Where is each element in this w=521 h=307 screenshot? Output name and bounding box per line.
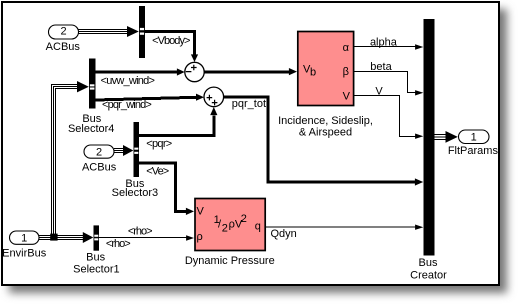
svg-text:β: β bbox=[343, 66, 349, 78]
svg-text:1: 1 bbox=[21, 232, 27, 244]
svg-text:Creator: Creator bbox=[410, 269, 447, 281]
svg-text:V: V bbox=[375, 86, 383, 98]
svg-text:V: V bbox=[197, 206, 205, 218]
svg-text:ACBus: ACBus bbox=[82, 162, 117, 174]
svg-text:ACBus: ACBus bbox=[46, 41, 81, 53]
svg-text:Bus: Bus bbox=[419, 257, 438, 269]
svg-text:<pqr_wind>: <pqr_wind> bbox=[102, 99, 151, 111]
svg-text:q: q bbox=[255, 221, 261, 233]
svg-text:2: 2 bbox=[241, 213, 247, 225]
svg-text:2: 2 bbox=[96, 146, 102, 158]
svg-text:2: 2 bbox=[60, 26, 66, 38]
svg-text:Selector4: Selector4 bbox=[68, 123, 114, 135]
svg-text:V: V bbox=[343, 91, 351, 103]
svg-text:pqr_tot: pqr_tot bbox=[232, 98, 266, 110]
svg-text:ρ: ρ bbox=[197, 231, 203, 243]
svg-text:<pqr>: <pqr> bbox=[146, 138, 172, 150]
svg-text:<Vbody>: <Vbody> bbox=[152, 35, 190, 47]
svg-text:beta: beta bbox=[370, 61, 392, 73]
svg-text:EnvirBus: EnvirBus bbox=[2, 247, 47, 259]
svg-text:alpha: alpha bbox=[370, 37, 398, 49]
svg-text:Incidence, Sideslip,: Incidence, Sideslip, bbox=[278, 115, 373, 127]
svg-text:Selector1: Selector1 bbox=[73, 264, 119, 276]
svg-text:& Airspeed: & Airspeed bbox=[299, 127, 352, 139]
svg-text:2: 2 bbox=[222, 223, 228, 235]
svg-text:Qdyn: Qdyn bbox=[271, 228, 297, 240]
svg-text:α: α bbox=[343, 42, 350, 54]
svg-text:Dynamic Pressure: Dynamic Pressure bbox=[185, 255, 275, 267]
svg-text:FltParams: FltParams bbox=[448, 145, 499, 157]
svg-text:<uvw_wind>: <uvw_wind> bbox=[101, 75, 155, 87]
svg-text:1: 1 bbox=[471, 132, 477, 144]
svg-text:<rho>: <rho> bbox=[128, 225, 152, 237]
svg-text:Bus: Bus bbox=[86, 252, 105, 264]
svg-text:b: b bbox=[310, 67, 316, 79]
svg-text:<Ve>: <Ve> bbox=[146, 166, 169, 178]
svg-text:<rho>: <rho> bbox=[106, 238, 130, 250]
svg-text:Selector3: Selector3 bbox=[112, 187, 158, 199]
